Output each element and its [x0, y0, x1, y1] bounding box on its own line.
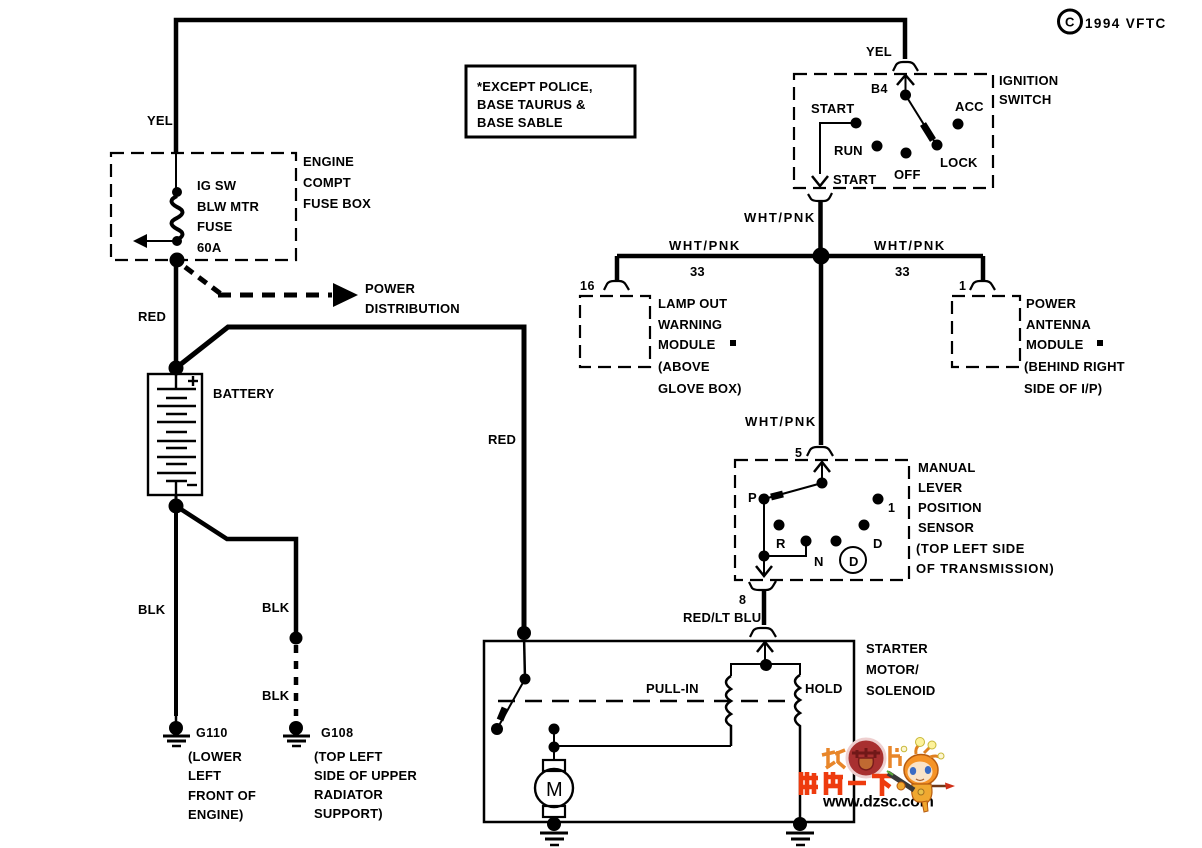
svg-text:R: R: [776, 536, 786, 551]
connector B4: cap: [893, 62, 918, 71]
node LOCK contact: [932, 140, 943, 151]
ground G110: [163, 714, 190, 746]
svg-text:FUSE: FUSE: [197, 219, 233, 234]
svg-text:ENGINE): ENGINE): [188, 807, 244, 822]
node: battery positive junction: [169, 361, 184, 376]
svg-text:LOCK: LOCK: [940, 155, 978, 170]
svg-text:BASE TAURUS &: BASE TAURUS &: [477, 97, 586, 112]
power antenna module box (dashed): [952, 296, 1020, 367]
svg-text:16: 16: [580, 279, 595, 293]
svg-text:START: START: [811, 101, 854, 116]
wire YEL: fuse box to ignition switch top run: [176, 20, 905, 153]
MLPS box (dashed): [735, 460, 909, 580]
engine compt fuse box (dashed): [111, 153, 296, 260]
svg-text:SOLENOID: SOLENOID: [866, 683, 936, 698]
svg-text:POWER: POWER: [1026, 296, 1077, 311]
svg-text:1: 1: [959, 279, 966, 293]
svg-text:RED: RED: [138, 309, 166, 324]
pen: [888, 773, 914, 790]
connector pin 1 cap: [970, 281, 995, 290]
svg-text:ACC: ACC: [955, 99, 984, 114]
connector arrow into starter: [764, 644, 766, 665]
svg-text:RED/LT BLU: RED/LT BLU: [683, 610, 761, 625]
svg-text:60A: 60A: [197, 240, 222, 255]
body: [912, 784, 932, 802]
node P contact: [759, 494, 770, 505]
svg-text:RADIATOR: RADIATOR: [314, 787, 383, 802]
char 找 (orange): [822, 748, 845, 768]
svg-text:B4: B4: [871, 82, 888, 96]
svg-text:WHT/PNK: WHT/PNK: [745, 414, 817, 429]
char 片 (orange): [890, 746, 900, 768]
svg-text:N: N: [814, 554, 824, 569]
ignition rotor lever B4 to LOCK: [906, 95, 937, 144]
wire: dashed power distribution tap: [185, 267, 221, 294]
connector pin 16 cap: [604, 281, 629, 290]
node solenoid feed junction: [760, 659, 772, 671]
svg-text:SUPPORT): SUPPORT): [314, 806, 383, 821]
node on BLK branch: [290, 632, 303, 645]
svg-text:5: 5: [795, 446, 802, 460]
svg-text:33: 33: [895, 264, 910, 279]
node contacts (unused): [774, 520, 785, 531]
svg-text:33: 33: [690, 264, 705, 279]
connector B4: arrow into switch: [905, 77, 907, 95]
wire BLK: battery to G110: [174, 506, 178, 716]
node MLPS pin 5 contact: [817, 478, 828, 489]
svg-text:OFF: OFF: [894, 167, 921, 182]
ground G108: [283, 721, 310, 746]
svg-text:(TOP LEFT SIDE: (TOP LEFT SIDE: [916, 541, 1025, 556]
svg-text:IGNITION: IGNITION: [999, 73, 1058, 88]
watermark: dzsc logo: [800, 738, 955, 813]
svg-text:COMPT: COMPT: [303, 175, 351, 190]
svg-text:STARTER: STARTER: [866, 641, 928, 656]
node START contact: [851, 118, 862, 129]
svg-text:SWITCH: SWITCH: [999, 92, 1051, 107]
circled D indicator: [840, 547, 866, 573]
svg-text:BLW MTR: BLW MTR: [197, 199, 259, 214]
wire WHT/PNK: switch to junction: [818, 201, 823, 256]
red 维库一下: [800, 772, 894, 796]
svg-text:WHT/PNK: WHT/PNK: [744, 210, 816, 225]
wire RED/LT BLU: [762, 590, 767, 625]
fuse tap arrow (left): [146, 240, 177, 242]
svg-text:MOTOR/: MOTOR/: [866, 662, 919, 677]
svg-text:RUN: RUN: [834, 143, 863, 158]
node MLPS output: [759, 551, 770, 562]
lamp out warning module box (dashed): [580, 296, 650, 367]
wire RED: fuse box to battery: [174, 260, 179, 368]
wire coil feed: [731, 664, 800, 676]
node B4 contact: [900, 90, 911, 101]
wire START output: [820, 123, 856, 174]
svg-text:BLK: BLK: [262, 688, 290, 703]
svg-text:FUSE BOX: FUSE BOX: [303, 196, 371, 211]
svg-text:1: 1: [888, 501, 895, 515]
battery: [148, 374, 202, 495]
MLPS selector lever to P: [764, 483, 822, 499]
mascot: [887, 738, 955, 813]
svg-text:P: P: [748, 490, 757, 505]
ground (hold coil): [786, 817, 814, 845]
magnifier with 芯: [847, 739, 885, 777]
ignition switch box (dashed): [794, 74, 993, 188]
svg-text:SIDE OF I/P): SIDE OF I/P): [1024, 381, 1102, 396]
svg-text:1994 VFTC: 1994 VFTC: [1085, 16, 1167, 31]
node: battery negative junction: [175, 495, 178, 506]
svg-text:LEVER: LEVER: [918, 480, 963, 495]
wire P to output: [763, 499, 765, 556]
svg-text:OF TRANSMISSION): OF TRANSMISSION): [916, 561, 1054, 576]
connector cap at starter: [750, 628, 776, 637]
node solenoid contact (top): [520, 674, 531, 685]
svg-text:G108: G108: [321, 726, 354, 740]
svg-text:ANTENNA: ANTENNA: [1026, 317, 1091, 332]
svg-text:(LOWER: (LOWER: [188, 749, 242, 764]
wire into fuse: [175, 153, 177, 191]
svg-text:RED: RED: [488, 432, 516, 447]
arrow out of MLPS: [763, 556, 765, 576]
svg-text:WHT/PNK: WHT/PNK: [874, 238, 946, 253]
svg-text:*EXCEPT POLICE,: *EXCEPT POLICE,: [477, 79, 593, 94]
svg-text:WARNING: WARNING: [658, 317, 722, 332]
svg-text:ENGINE: ENGINE: [303, 154, 354, 169]
wire WHT/PNK: junction to MLPS: [819, 256, 824, 445]
connector arrow into MLPS: [821, 464, 823, 483]
svg-text:START: START: [833, 172, 876, 187]
svg-text:DISTRIBUTION: DISTRIBUTION: [365, 301, 460, 316]
svg-text:D: D: [849, 554, 859, 569]
svg-text:(ABOVE: (ABOVE: [658, 359, 710, 374]
connector pin 8 cap: [749, 581, 776, 590]
svg-text:PULL-IN: PULL-IN: [646, 681, 699, 696]
starter motor/solenoid box: [484, 641, 854, 822]
svg-text:MODULE: MODULE: [658, 337, 716, 352]
svg-text:YEL: YEL: [866, 44, 892, 59]
svg-text:M: M: [546, 779, 563, 801]
fuse IG SW BLW MTR FUSE 60A: [172, 187, 182, 197]
svg-text:C: C: [1065, 15, 1075, 30]
svg-text:GLOVE BOX): GLOVE BOX): [658, 381, 742, 396]
connector: ignition switch output cap: [808, 193, 832, 201]
svg-text:BATTERY: BATTERY: [213, 386, 274, 401]
node solenoid contact (bottom): [491, 723, 503, 735]
node RED feed junction: [517, 626, 531, 640]
svg-text:8: 8: [739, 593, 746, 607]
wire WHT/PNK horizontal bus: [617, 254, 983, 259]
wire RED: battery to starter solenoid: [176, 327, 524, 636]
svg-text:(BEHIND RIGHT: (BEHIND RIGHT: [1024, 359, 1125, 374]
note box EXCEPT POLICE: [466, 66, 635, 137]
svg-text:LEFT: LEFT: [188, 768, 221, 783]
connector pin 5 cap: [807, 447, 833, 456]
svg-text:YEL: YEL: [147, 113, 173, 128]
wire drop to power antenna module: [981, 256, 986, 280]
svg-text:G110: G110: [196, 726, 228, 740]
svg-text:BASE SABLE: BASE SABLE: [477, 115, 563, 130]
svg-text:BLK: BLK: [262, 600, 290, 615]
wire BLK dashed to G108: [294, 645, 299, 716]
svg-text:MANUAL: MANUAL: [918, 460, 976, 475]
antennae: [916, 745, 919, 754]
node RUN contact: [872, 141, 883, 152]
pull-in coil: [726, 676, 731, 746]
node R wire contact: [801, 536, 812, 547]
node OFF contact: [901, 148, 912, 159]
svg-text:POSITION: POSITION: [918, 500, 982, 515]
node: fuse box output junction: [170, 253, 185, 268]
copyright 1994 VFTC: [1059, 10, 1082, 33]
svg-text:WHT/PNK: WHT/PNK: [669, 238, 741, 253]
node motor feed contacts: [549, 724, 560, 735]
svg-text:HOLD: HOLD: [805, 681, 843, 696]
node: WHT/PNK junction: [813, 248, 830, 265]
svg-text:FRONT OF: FRONT OF: [188, 788, 256, 803]
wire motor to pull-in coil: [554, 745, 731, 747]
svg-text:SIDE OF UPPER: SIDE OF UPPER: [314, 768, 417, 783]
hold coil: [795, 675, 800, 822]
svg-text:IG SW: IG SW: [197, 178, 237, 193]
solenoid moving contact lever: [497, 679, 525, 729]
svg-text:MODULE: MODULE: [1026, 337, 1084, 352]
wire BLK: battery to G108 branch: [176, 506, 296, 638]
svg-text:SENSOR: SENSOR: [918, 520, 975, 535]
svg-text:(TOP LEFT: (TOP LEFT: [314, 749, 383, 764]
svg-text:LAMP OUT: LAMP OUT: [658, 296, 727, 311]
motor M: [543, 760, 565, 771]
node ACC contact: [953, 119, 964, 130]
dashed solenoid plunger line: [498, 700, 793, 703]
svg-text:D: D: [873, 536, 883, 551]
svg-text:BLK: BLK: [138, 602, 166, 617]
right arm: [932, 785, 946, 788]
ground (motor): [540, 817, 568, 845]
wire output to R contact: [764, 541, 806, 556]
svg-text:POWER: POWER: [365, 281, 416, 296]
wire drop to lamp out module: [615, 256, 620, 280]
